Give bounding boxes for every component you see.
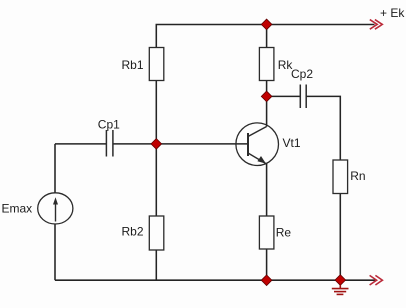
wire bottom ground rail: [55, 279, 376, 281]
svg-text:Rn: Rn: [350, 169, 365, 183]
wire Rn bottom to ground node: [339, 194, 341, 281]
svg-text:Cp2: Cp2: [291, 67, 313, 81]
source Emax: [2, 193, 73, 224]
resistor Rk: [259, 48, 293, 81]
svg-text:Cp1: Cp1: [98, 118, 120, 132]
resistor Re: [259, 216, 291, 249]
wire Rb2 bottom to ground rail: [155, 250, 157, 280]
resistor Rn: [333, 160, 366, 194]
capacitor Cp2: [300, 85, 306, 109]
junction node Rn / ground: [335, 275, 346, 286]
junction node collector / Cp2: [261, 91, 272, 102]
ground: [332, 285, 349, 294]
wire Cp2 to Rn top: [306, 96, 340, 160]
wire Emax bottom stem: [54, 224, 56, 280]
wire base node to Rb2 top: [155, 144, 157, 216]
port +Ek chevron: [370, 20, 383, 30]
wire Rb1 bottom to base node: [155, 81, 157, 144]
svg-text:Emax: Emax: [2, 202, 33, 216]
wire Rk top stem: [266, 25, 268, 48]
wire input left horizontal to Cp1: [55, 143, 106, 145]
junction node base / Cp1: [151, 139, 162, 150]
junction node emitter / ground rail: [261, 275, 272, 286]
svg-text:+ Ek: + Ek: [380, 6, 405, 20]
svg-text:Rb1: Rb1: [122, 58, 144, 72]
wire top rail: [156, 25, 374, 48]
svg-text:Re: Re: [276, 226, 292, 240]
junction node top rail / Rk: [261, 19, 272, 30]
wire collector node to Cp2: [267, 95, 301, 97]
wire collector node to Vt1 collector: [266, 96, 268, 126]
wire Re bottom to ground rail: [266, 249, 268, 280]
wire Vt1 emitter to Re top: [266, 164, 268, 217]
svg-text:Rb2: Rb2: [122, 225, 144, 239]
wire base node to Vt1 base: [156, 143, 248, 145]
wire Rk bottom to collector node: [266, 81, 268, 97]
resistor Rb1: [122, 48, 164, 81]
port output chevron: [370, 275, 383, 285]
svg-text:Vt1: Vt1: [283, 136, 301, 150]
wire Emax top stem: [54, 144, 56, 193]
resistor Rb2: [122, 216, 164, 250]
capacitor Cp1: [106, 130, 113, 157]
transistor Q Vt1: [236, 123, 301, 166]
wire Cp1 to base node: [113, 143, 156, 145]
